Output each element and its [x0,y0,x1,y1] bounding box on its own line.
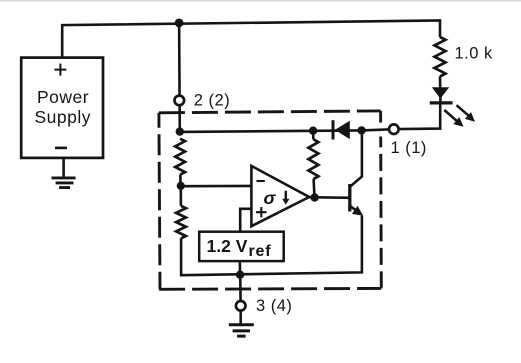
transistor Q1 (npn output) [350,130,363,215]
resistor R1 upper divider [175,139,185,175]
diode D1 (series diode, cathode left) [333,120,350,139]
pin terminal 1 [389,124,399,134]
wire divider tap to comparator inverting input [181,185,252,188]
voltage reference 1.2 Vref [199,232,284,261]
svg-text:σ: σ [264,188,277,208]
resistor 1.0 k [435,37,446,76]
power supply V1 [21,58,103,158]
wire tap junction to R3 top [180,186,183,206]
svg-text:1 (1): 1 (1) [391,139,427,157]
wire from power supply + terminal to top supply rail [62,21,440,59]
junction at top of bias resistor R2 [309,127,317,135]
wire ground rail junction to pin 3 [239,275,242,302]
IC package boundary (dashed) [159,111,381,289]
junction divider tap [177,182,185,190]
wire from collector junction out to pin terminal 1 [362,129,399,130]
wire comparator output to transistor base [309,196,350,199]
svg-text:ref: ref [249,243,272,260]
junction comparator output node [310,193,318,201]
junction on internal ground rail [236,271,244,279]
svg-text:2 (2): 2 (2) [194,91,230,109]
wire resistor to LED anode [439,76,442,88]
op-amp comparator U1 [251,166,309,226]
junction on top supply rail [175,19,184,28]
wire R2 bottom to comparator output node [312,179,315,197]
LED indicator [430,87,475,127]
junction: internal supply node at pin2 entry [176,127,184,135]
wire from power supply - terminal to ground [62,158,65,177]
wire R1 bottom to divider tap junction [179,175,182,186]
junction at collector / pin1 node [357,126,365,134]
pin terminal 2 [175,96,185,106]
ground (pin 3) [229,325,254,336]
ground (power supply return) [52,178,76,188]
resistor R2 [308,139,318,179]
svg-text:3 (4): 3 (4) [256,297,292,315]
wire from top rail junction down through pin 2 into IC [178,23,181,131]
wire Vref bottom to internal ground rail [239,261,242,274]
resistor R3 lower divider [176,206,186,238]
pin terminal 3 [236,301,246,311]
wire from pin 1 to LED cathode [399,104,441,129]
wire pin 3 to ground [239,311,242,324]
svg-text:Power: Power [37,87,89,107]
wire internal top rail to diode cathode [180,130,362,132]
svg-text:1.2 V: 1.2 V [207,236,248,256]
wire comparator non-inverting input to Vref [240,209,252,232]
svg-text:1.0 k: 1.0 k [455,45,494,63]
wire R3 bottom to internal ground rail, rail to emitter [181,215,362,275]
wire R2 top from internal rail [312,131,315,140]
svg-text:Supply: Supply [35,107,92,127]
